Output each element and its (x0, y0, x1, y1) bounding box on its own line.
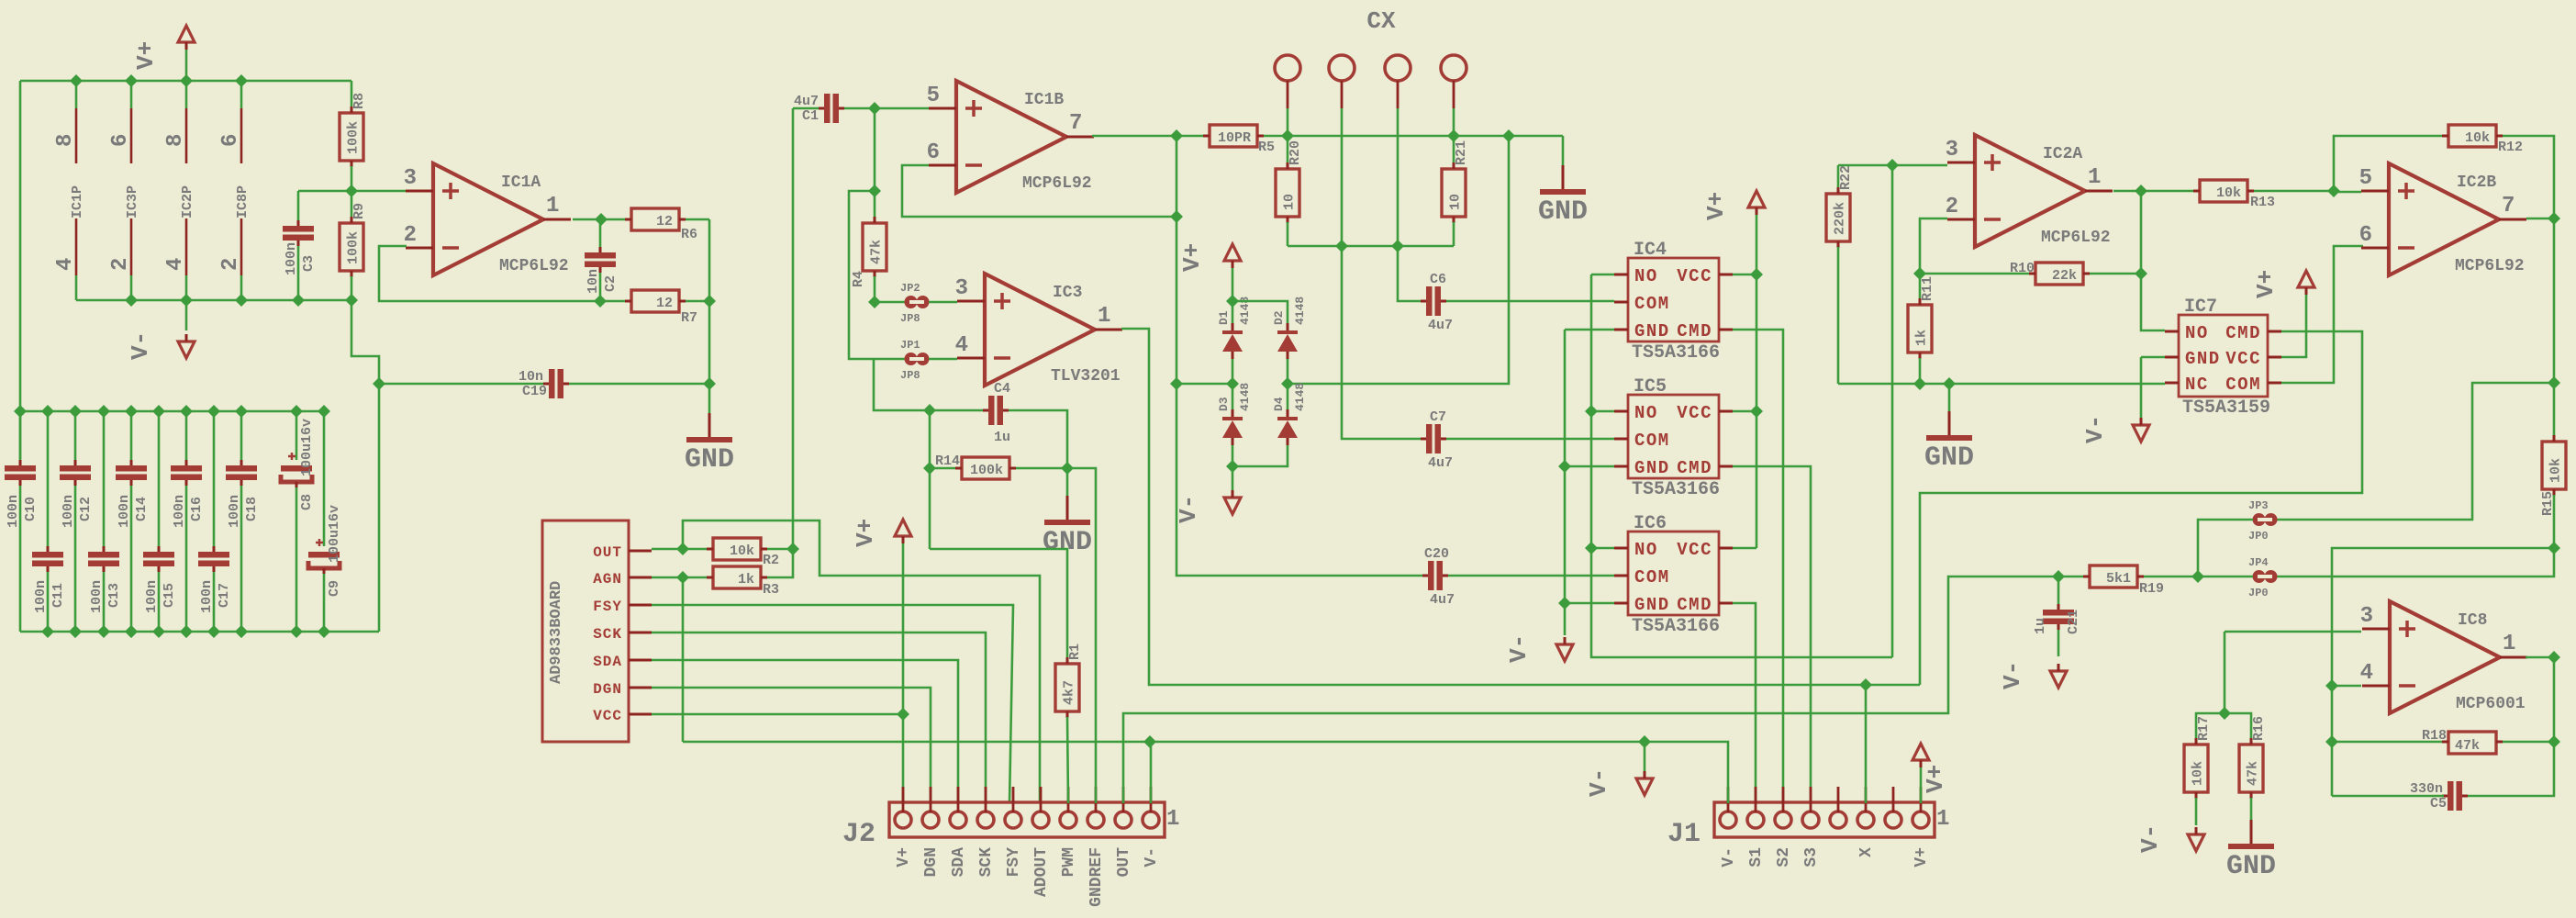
power flag V- on row (1644, 742, 1646, 771)
wire pad3 to C6 (1398, 108, 1422, 301)
svg-text:1: 1 (546, 194, 559, 218)
svg-text:6: 6 (108, 134, 133, 147)
svg-text:IC8: IC8 (2458, 611, 2487, 630)
wire IC5 CMD to J1 S3 (1733, 466, 1811, 803)
svg-text:V+: V+ (1702, 192, 1730, 220)
svg-text:AD9833BOARD: AD9833BOARD (548, 581, 565, 684)
svg-text:1: 1 (1166, 807, 1179, 832)
resistor R16 47k (2239, 744, 2263, 792)
op-amp IC1B MCP6L92 (875, 107, 929, 110)
wire V- row (AGN net) (683, 742, 1728, 803)
wire D4 bottom link (1232, 445, 1288, 466)
wire output to JP3 (2277, 383, 2554, 520)
svg-text:5: 5 (2359, 166, 2372, 191)
svg-text:IC7: IC7 (2184, 297, 2217, 318)
svg-text:100u16v: 100u16v (327, 505, 342, 563)
wire V- to cap bottom rail (378, 384, 381, 632)
svg-text:3: 3 (1946, 138, 1958, 162)
wire IC2A pin3 row (1838, 164, 1947, 167)
resistor R4 47k (863, 223, 887, 271)
jumper JP2 (JP8) (875, 301, 905, 304)
svg-text:V-: V- (2136, 824, 2164, 853)
svg-text:1k: 1k (738, 572, 754, 588)
svg-text:R2: R2 (763, 553, 779, 568)
svg-text:FSY: FSY (1005, 847, 1023, 878)
svg-text:100n: 100n (284, 242, 299, 275)
svg-text:4: 4 (53, 258, 78, 271)
capacitor C12 100n (74, 411, 77, 460)
svg-text:6: 6 (218, 134, 243, 147)
jumper JP3 (JP0) (2253, 513, 2266, 526)
wire pad1 to R5 node (1287, 108, 1289, 136)
wire R14 left node to R1 (930, 549, 1067, 657)
capacitor C10 100n (19, 411, 22, 460)
svg-text:1: 1 (1098, 304, 1110, 329)
svg-text:C6: C6 (1430, 272, 1446, 287)
svg-text:IC4: IC4 (1634, 240, 1667, 261)
svg-text:C5: C5 (2430, 796, 2447, 812)
power pins IC3P pin 6/2 (130, 81, 133, 108)
svg-text:R22: R22 (1838, 165, 1854, 190)
svg-text:FSY: FSY (593, 599, 622, 615)
svg-text:1: 1 (2503, 632, 2515, 656)
power flag V- at diodes (1232, 466, 1234, 494)
pad CX-2 (1329, 55, 1355, 81)
svg-text:IC2B: IC2B (2457, 174, 2496, 192)
svg-text:VCC: VCC (1677, 540, 1712, 560)
wire IC7 GND to V- (2141, 356, 2165, 359)
svg-text:MCP6L92: MCP6L92 (2455, 257, 2525, 275)
wire IC3 output to row 746 (1121, 329, 1920, 685)
wire IC1A pin2 feedback (379, 246, 600, 301)
wire C1 node down to R4 (874, 108, 876, 218)
wire output to IC7 NO (2141, 191, 2165, 330)
power flag V- below IC6 (1556, 644, 1573, 661)
svg-text:220k: 220k (1833, 202, 1848, 235)
svg-text:CMD: CMD (1677, 595, 1712, 615)
svg-text:R7: R7 (681, 310, 697, 326)
power flag V+ (IC power) (178, 26, 195, 42)
wire J2 V- drop (1150, 742, 1153, 803)
power flag V+ at diodes (1224, 244, 1241, 261)
wire VCC to V+ node (652, 713, 903, 716)
wire IC2A pin3 riser to NO bus (1891, 165, 1894, 657)
svg-text:5: 5 (927, 84, 940, 108)
wire IC7 COM to IC2B pin6 (2281, 246, 2363, 383)
svg-text:C2: C2 (603, 275, 619, 292)
wire pad2 to C7 (1342, 108, 1422, 439)
svg-text:GND: GND (685, 444, 734, 476)
capacitor C21 1u (2057, 577, 2060, 604)
jumper JP4 (JP0) (2277, 548, 2554, 577)
resistor R2 10k (652, 548, 713, 551)
svg-text:V-: V- (1585, 768, 1612, 797)
svg-text:GND: GND (2226, 851, 2276, 882)
svg-text:NO: NO (2185, 323, 2209, 343)
wire IC1B pin6 feedback (902, 165, 1176, 217)
svg-text:330n: 330n (2410, 781, 2443, 797)
op-amp IC2B MCP6L92 (2389, 163, 2499, 275)
capacitor C17 100n (213, 411, 216, 546)
wire IC4 CMD to J1 S2 (1733, 330, 1783, 803)
svg-text:IC1P: IC1P (70, 185, 85, 218)
svg-text:S3: S3 (1802, 847, 1821, 868)
svg-text:4u7: 4u7 (794, 94, 819, 109)
svg-text:CMD: CMD (1677, 458, 1712, 478)
ground GND (virtual ground output) (708, 384, 711, 413)
wire ADOUT riser to C1 (x=864) (792, 108, 795, 549)
pad CX-3 (1385, 55, 1411, 81)
wire R3 right to R2 right node (767, 549, 793, 577)
svg-text:R13: R13 (2250, 195, 2275, 210)
svg-text:R3: R3 (763, 582, 779, 598)
wire IC7 CMD route to switched net (1920, 331, 2362, 685)
svg-text:12: 12 (656, 296, 673, 311)
svg-text:100k: 100k (346, 121, 362, 154)
ground GND below R16 (2250, 820, 2253, 844)
svg-text:C8: C8 (299, 494, 315, 510)
wire OUT net to J2 ADOUT (683, 521, 1040, 803)
svg-text:D4: D4 (1272, 397, 1286, 411)
resistor R17 10k (2184, 744, 2208, 792)
wire FSY to J2 (652, 605, 1013, 803)
analog switch IC4 TS5A3166 (1628, 258, 1719, 341)
svg-text:MCP6001: MCP6001 (2456, 695, 2526, 713)
resistor R3 1k (652, 577, 713, 579)
svg-text:1u: 1u (994, 430, 1010, 445)
wire J2 OUT to R19 node (1123, 577, 2058, 803)
comparator IC3 TLV3201 (985, 274, 1095, 386)
svg-text:IC2A: IC2A (2043, 145, 2082, 163)
power flag V+ above switches (1748, 191, 1765, 207)
svg-text:C17: C17 (217, 583, 232, 608)
svg-text:JP3: JP3 (2248, 499, 2269, 512)
svg-text:MCP6L92: MCP6L92 (499, 257, 569, 275)
svg-text:V+: V+ (852, 519, 879, 547)
svg-text:3: 3 (955, 276, 968, 301)
svg-text:10k: 10k (730, 543, 754, 559)
svg-text:S2: S2 (1775, 847, 1793, 868)
svg-text:MCP6L92: MCP6L92 (2041, 229, 2111, 247)
ground GND mid-right (1948, 384, 1951, 411)
svg-text:10k: 10k (2465, 130, 2490, 146)
svg-text:10PR: 10PR (1218, 130, 1251, 146)
svg-text:47k: 47k (2455, 738, 2480, 754)
svg-text:47k: 47k (869, 240, 885, 264)
svg-text:COM: COM (2225, 375, 2261, 395)
resistor R21 10 (1453, 136, 1455, 162)
wire R20/R21 bottom row (1288, 245, 1454, 248)
pad CX-1 (1275, 55, 1300, 81)
svg-text:NO: NO (1634, 403, 1658, 423)
svg-text:SDA: SDA (950, 847, 968, 878)
wire IC6 CMD to J1 S1 (1733, 603, 1756, 803)
svg-text:C19: C19 (522, 384, 547, 399)
svg-text:2: 2 (1946, 195, 1958, 219)
svg-text:GND: GND (2185, 349, 2221, 369)
svg-text:4u7: 4u7 (1430, 592, 1455, 608)
wire GND row y=148 (1288, 135, 1563, 138)
svg-text:12: 12 (656, 214, 673, 229)
svg-text:10n: 10n (519, 369, 543, 385)
ground GND at R14 (1066, 468, 1069, 496)
svg-text:100n: 100n (61, 495, 76, 528)
ground GND at CX (1562, 136, 1565, 165)
svg-text:COM: COM (1634, 567, 1670, 588)
svg-text:S1: S1 (1747, 847, 1766, 868)
wire virtual ground node (708, 219, 711, 384)
svg-text:1: 1 (1936, 807, 1949, 832)
wire IC2B output node (2526, 218, 2554, 220)
svg-text:V-: V- (127, 331, 154, 360)
svg-text:V-: V- (2081, 415, 2109, 443)
svg-text:GND: GND (1634, 321, 1670, 341)
svg-text:4148: 4148 (1293, 297, 1307, 325)
capacitor C20 4u7 (1428, 561, 1434, 590)
capacitor C7 4u7 (1426, 424, 1433, 453)
svg-text:1u: 1u (2033, 618, 2048, 634)
analog switch IC5 TS5A3166 (1628, 395, 1719, 478)
capacitor C1 4u7 (793, 107, 820, 110)
svg-text:SDA: SDA (593, 654, 622, 670)
capacitor C13 100n (103, 411, 106, 546)
module AD9833BOARD (542, 521, 629, 742)
diode D1 4148 (1232, 301, 1234, 323)
capacitor C2 10n (599, 223, 602, 247)
svg-text:D1: D1 (1217, 310, 1231, 325)
svg-text:R20: R20 (1288, 140, 1303, 165)
svg-text:C4: C4 (994, 381, 1010, 397)
svg-text:C10: C10 (23, 497, 39, 521)
wire IC8 pin4 node (2332, 685, 2361, 688)
wire D1/D2 top link (1232, 301, 1288, 323)
svg-text:JP0: JP0 (2248, 530, 2269, 543)
svg-text:V+: V+ (1922, 765, 1949, 793)
wire V+ top rail (20, 80, 351, 83)
wire cap bank top rail (V+) (20, 410, 324, 413)
power flag V- below R17 (2188, 834, 2204, 851)
wire pin4 node to C4 (874, 359, 985, 410)
svg-text:X: X (1857, 847, 1876, 857)
svg-text:IC6: IC6 (1634, 513, 1667, 534)
resistor R8 100k (351, 81, 353, 107)
svg-text:GND: GND (1924, 442, 1974, 474)
svg-text:R21: R21 (1454, 140, 1469, 165)
svg-text:100n: 100n (172, 495, 187, 528)
svg-text:5k1: 5k1 (2106, 571, 2131, 587)
svg-text:SCK: SCK (593, 626, 622, 643)
svg-text:100k: 100k (970, 463, 1003, 478)
svg-text:GND: GND (1634, 458, 1670, 478)
diode D2 4148 (1287, 323, 1289, 330)
svg-text:6: 6 (2359, 223, 2372, 248)
svg-text:3: 3 (2360, 604, 2373, 629)
svg-text:PWM: PWM (1060, 847, 1078, 877)
svg-text:R1: R1 (1067, 644, 1083, 660)
svg-text:C3: C3 (301, 255, 317, 272)
svg-text:OUT: OUT (593, 544, 622, 561)
wire IC1B output node (1092, 135, 1210, 138)
node midref / wire to IC1A pin3 (345, 185, 358, 197)
power flag V- (IC power) (185, 300, 188, 330)
svg-text:C9: C9 (327, 580, 342, 597)
power flag V- below C21 (2050, 671, 2067, 688)
svg-text:R4: R4 (851, 271, 866, 287)
capacitor C19 10n (379, 383, 545, 386)
svg-text:J1: J1 (1667, 819, 1701, 850)
capacitor C4 1u (988, 396, 995, 425)
svg-text:R14: R14 (935, 453, 960, 469)
svg-text:JP8: JP8 (900, 369, 920, 382)
svg-text:DGN: DGN (922, 847, 941, 877)
op-amp IC2A MCP6L92 (1975, 135, 2085, 247)
svg-text:NO: NO (1634, 266, 1658, 286)
resistor R15 10k (2553, 383, 2556, 435)
svg-text:ADOUT: ADOUT (1032, 847, 1051, 897)
wire V- bottom rail (76, 299, 351, 302)
svg-text:2: 2 (218, 258, 243, 271)
svg-text:C16: C16 (189, 497, 205, 521)
svg-text:DGN: DGN (593, 681, 622, 698)
wire IC2A pin2 to R10/R11 node (1920, 218, 1947, 305)
svg-text:R19: R19 (2139, 581, 2164, 597)
capacitor C6 4u7 (1426, 286, 1433, 316)
svg-text:NC: NC (2185, 375, 2209, 395)
svg-text:100n: 100n (117, 495, 132, 528)
svg-text:AGN: AGN (593, 571, 622, 588)
svg-text:R9: R9 (351, 203, 367, 219)
capacitor C15 100n (158, 411, 161, 546)
svg-text:100u16v: 100u16v (299, 419, 315, 476)
svg-text:NO: NO (1634, 540, 1658, 560)
svg-text:C12: C12 (78, 497, 94, 521)
svg-text:47k: 47k (2246, 761, 2261, 786)
svg-text:TS5A3166: TS5A3166 (1632, 616, 1720, 637)
wire clamp row (IC1B out) (1177, 383, 1232, 386)
svg-text:1: 1 (2088, 165, 2101, 190)
op-amp IC8 MCP6001 (2390, 601, 2500, 713)
wire pad4 to row (1453, 108, 1455, 136)
power flag V+ at IC7 VCC (2281, 295, 2306, 357)
svg-text:SCK: SCK (977, 847, 996, 878)
wire IC1A output (573, 218, 631, 221)
svg-text:V-: V- (1143, 847, 1161, 868)
diode D4 4148 (1287, 384, 1289, 409)
svg-text:4u7: 4u7 (1428, 455, 1453, 471)
svg-text:10n: 10n (585, 269, 601, 294)
wire R15 bottom to IC8 feedback node (2332, 548, 2554, 796)
svg-text:D3: D3 (1217, 397, 1231, 411)
svg-text:D2: D2 (1272, 310, 1286, 325)
svg-text:100n: 100n (6, 495, 21, 528)
svg-text:C14: C14 (134, 497, 150, 521)
resistor R5 10PR (1210, 125, 1257, 147)
svg-text:4: 4 (163, 258, 188, 271)
wire output down to JP3 row (2553, 218, 2556, 383)
wire cap bank bottom rail (V-) (19, 411, 22, 459)
wire SCK to J2 (652, 633, 986, 803)
svg-text:IC5: IC5 (1634, 376, 1667, 397)
svg-text:CX: CX (1366, 7, 1396, 35)
svg-text:TLV3201: TLV3201 (1051, 367, 1121, 386)
resistor R9 100k (351, 196, 353, 218)
capacitor C18 100n (240, 411, 243, 460)
svg-text:4: 4 (2360, 661, 2373, 686)
svg-text:V-: V- (1505, 634, 1533, 663)
svg-text:R8: R8 (351, 93, 367, 109)
op-amp IC1A MCP6L92 (433, 163, 543, 275)
connector J2 (889, 802, 1165, 837)
resistor R22 220k (1837, 165, 1840, 188)
svg-text:V+: V+ (2252, 270, 2280, 298)
svg-text:JP4: JP4 (2248, 556, 2269, 569)
wire GND bus of switches to V- (1565, 329, 1614, 331)
svg-text:IC3P: IC3P (125, 185, 140, 218)
wire V- jog to C19 row (351, 300, 379, 384)
svg-text:2: 2 (108, 258, 133, 271)
capacitor C9 100u16v electrolytic (323, 411, 326, 546)
svg-text:C1: C1 (802, 108, 819, 124)
svg-text:4u7: 4u7 (1428, 318, 1453, 333)
resistor R13 10k (2200, 180, 2247, 202)
wire node B to IC3 pin4 row (849, 191, 905, 359)
svg-text:C15: C15 (162, 583, 177, 608)
power pins IC1P pin 8/4 (75, 81, 78, 108)
svg-text:8: 8 (53, 134, 78, 147)
wire GNDREF to J2 (1067, 468, 1096, 803)
svg-text:COM: COM (1634, 431, 1670, 451)
resistor R18 47k (2332, 741, 2442, 744)
wire R13 to pin5 (2334, 191, 2361, 194)
resistor R1 4k7 (1055, 664, 1079, 711)
analog switch IC7 TS5A3159 (2179, 315, 2268, 397)
svg-text:4148: 4148 (1293, 383, 1307, 411)
svg-text:R5: R5 (1258, 140, 1275, 155)
svg-text:C13: C13 (106, 583, 122, 608)
svg-text:V-: V- (1175, 495, 1202, 523)
wire SDA to J2 (652, 660, 958, 803)
svg-text:IC3: IC3 (1053, 284, 1082, 302)
svg-text:8: 8 (163, 134, 188, 147)
svg-text:C11: C11 (50, 583, 66, 608)
svg-text:10k: 10k (2191, 761, 2206, 786)
svg-text:100n: 100n (89, 580, 105, 613)
svg-text:V+: V+ (1178, 243, 1206, 272)
svg-text:7: 7 (2502, 194, 2515, 218)
capacitor C14 100n (130, 411, 133, 460)
svg-text:VCC: VCC (1677, 266, 1712, 286)
resistor R11 1k (1908, 305, 1932, 353)
svg-text:V-: V- (1720, 847, 1738, 868)
svg-text:MCP6L92: MCP6L92 (1022, 174, 1092, 193)
svg-text:IC8P: IC8P (235, 185, 251, 218)
svg-text:4k7: 4k7 (1062, 680, 1077, 705)
connector J1 (1714, 802, 1935, 837)
svg-text:10k: 10k (2548, 458, 2564, 483)
resistor R14 100k (929, 410, 931, 549)
capacitor C5 330n (2448, 781, 2454, 811)
wire clamp row (GND) to riser (1288, 136, 1509, 384)
svg-text:GND: GND (1634, 595, 1670, 615)
svg-text:R16: R16 (2251, 716, 2267, 741)
resistor R6 12 (631, 208, 679, 230)
svg-text:JP2: JP2 (900, 282, 920, 295)
svg-text:V+: V+ (1912, 847, 1931, 868)
wire IC8 pin3 row (2225, 631, 2361, 633)
diode D3 4148 (1232, 384, 1234, 409)
svg-text:R17: R17 (2196, 716, 2212, 741)
svg-text:100n: 100n (227, 495, 242, 528)
